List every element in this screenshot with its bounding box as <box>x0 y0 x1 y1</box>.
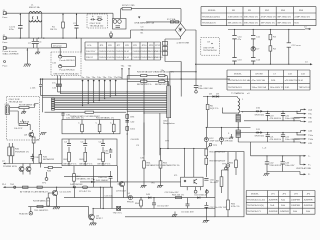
enclosure box control <box>215 152 244 217</box>
bus wires <box>41 92 167 113</box>
capacitor C36 <box>31 154 40 161</box>
wire drop x127 <box>127 81 128 123</box>
svg-text:C44 63V: C44 63V <box>131 139 140 141</box>
capacitor C11b <box>251 58 261 65</box>
wire primary tap <box>222 108 238 114</box>
wire ctl vertical <box>205 164 207 197</box>
choke L1 <box>29 5 42 39</box>
test point TP3 <box>222 164 227 170</box>
ground ctl <box>203 209 210 223</box>
svg-text:JUMPER: JUMPER <box>291 205 300 207</box>
capacitor C2 <box>73 13 79 38</box>
svg-text:N.A.: N.A. <box>281 198 286 201</box>
svg-text:JUMPER: JUMPER <box>304 205 313 207</box>
capacitor C34 + resistor R44 <box>98 139 111 166</box>
connector pin riser 1 <box>30 78 42 95</box>
resistor R7 <box>32 137 40 164</box>
svg-text:JP1 4k7 1%: JP1 4k7 1% <box>79 191 91 193</box>
resistor R48a <box>35 186 49 193</box>
transistor Q5 <box>89 208 104 223</box>
capacitor C1 X2 <box>9 13 23 38</box>
svg-text:Fase: Fase <box>3 17 9 19</box>
mosfet Q2 <box>26 164 31 175</box>
test point TP1 <box>42 172 48 185</box>
svg-text:al SETTORE: al SETTORE <box>177 43 190 45</box>
capacitor C19 <box>266 111 282 121</box>
terminal T10b <box>294 138 314 143</box>
terminal J2 neutral input <box>3 35 9 44</box>
svg-text:N.A.: N.A. <box>270 204 275 207</box>
capacitor C43 <box>281 155 295 171</box>
diode D42 <box>127 193 134 204</box>
svg-text:POWER MOS: POWER MOS <box>3 166 17 168</box>
resistor R52 <box>159 148 180 178</box>
fuse F1 <box>146 18 180 23</box>
svg-text:39P 2W20 1%: 39P 2W20 1% <box>261 23 275 25</box>
terminal T9b <box>294 117 313 122</box>
svg-text:R? BETA: R? BETA <box>20 120 29 123</box>
wire L2 bottom <box>7 37 131 39</box>
svg-text:N.M.: N.M. <box>125 57 130 59</box>
svg-text:N.M.: N.M. <box>285 87 290 89</box>
optocoupler IC1 <box>174 148 203 190</box>
wire bridge right to rail <box>186 30 196 71</box>
transformer T1 primary <box>237 97 244 115</box>
svg-text:CHIUSO: CHIUSO <box>154 51 163 53</box>
svg-text:F1 T10A: F1 T10A <box>167 18 176 21</box>
diode D9 <box>216 93 220 97</box>
resistor R3 <box>269 30 277 45</box>
capacitor C5 <box>59 55 76 62</box>
svg-text:a78 S/BCT84: a78 S/BCT84 <box>285 80 299 82</box>
wire bridge bottom <box>165 37 181 97</box>
svg-text:190-12: 190-12 <box>86 57 94 59</box>
wire gate low rail <box>64 177 112 182</box>
wire rows left join <box>126 76 128 82</box>
zener D7 <box>251 45 260 57</box>
node labels <box>134 17 154 35</box>
svg-text:TH2 70°C: TH2 70°C <box>113 213 123 215</box>
capacitor C12 <box>287 30 301 65</box>
svg-text:R31 BETA/MC 1%: R31 BETA/MC 1% <box>96 116 114 119</box>
svg-text:FR106: FR106 <box>127 202 134 204</box>
terminal socket lower <box>19 207 33 216</box>
svg-text:C5 10u 63V: C5 10u 63V <box>157 206 169 208</box>
varistor RV1 <box>97 16 103 20</box>
varistor bank RV3 <box>162 42 167 56</box>
svg-text:R26 BETA/10W 1%: R26 BETA/10W 1% <box>137 71 156 74</box>
svg-text:N.M.: N.M. <box>271 80 276 82</box>
thermostat TH2 <box>113 206 123 214</box>
junction dots snubber <box>195 29 289 65</box>
ground fan <box>264 172 270 176</box>
capacitor C22 <box>281 132 300 142</box>
svg-text:22MF 2W20 2%: 22MF 2W20 2% <box>294 16 310 18</box>
svg-text:JUMPER: JUMPER <box>304 199 313 201</box>
svg-text:D43 1N4148: D43 1N4148 <box>195 194 208 196</box>
terminal P minus <box>300 172 310 177</box>
wire DC rail top <box>203 96 237 98</box>
svg-text:BETA/MC2W 1%: BETA/MC2W 1% <box>147 164 164 167</box>
diode D41 <box>91 180 109 183</box>
wire bottom rail <box>125 216 215 218</box>
wire L2 to bridge left <box>131 30 176 38</box>
svg-text:N.A.: N.A. <box>293 210 298 213</box>
resistor R37 row2 <box>155 80 169 86</box>
svg-text:150m 250V 6A: 150m 250V 6A <box>252 86 267 89</box>
wire driver bottom rail <box>6 186 113 188</box>
svg-text:SF28 600: SF28 600 <box>255 136 265 138</box>
svg-text:100n: 100n <box>130 129 136 131</box>
wire tap risers <box>52 76 61 94</box>
svg-text:470k 1%: 470k 1% <box>231 206 240 208</box>
diode D43 <box>195 194 208 198</box>
wire long mid rail <box>41 78 231 80</box>
wire verticals x100 x103 <box>100 187 114 210</box>
terminal L2B <box>301 142 313 145</box>
svg-text:C12 ar-ar: C12 ar-ar <box>292 44 302 47</box>
svg-text:JUMPER: JUMPER <box>269 199 278 201</box>
terminal T6b <box>128 66 133 80</box>
connector pin riser 2 <box>42 78 43 112</box>
wire out B top <box>244 132 300 134</box>
capacitor C52 <box>204 202 227 209</box>
resistor R36 row1 <box>155 71 174 86</box>
terminal L2A <box>301 130 313 133</box>
svg-text:R2 NTC 2R5: R2 NTC 2R5 <box>122 5 135 7</box>
svg-text:N.M.: N.M. <box>125 51 130 53</box>
svg-text:TECNICA 100: TECNICA 100 <box>9 100 24 103</box>
wire HV feed <box>180 62 182 80</box>
diode D45 <box>146 194 151 199</box>
wire out B bottom <box>238 141 301 143</box>
svg-text:47m 100V 4A: 47m 100V 4A <box>252 79 266 82</box>
svg-text:470F 400: 470F 400 <box>210 141 220 143</box>
svg-text:JUMPER: JUMPER <box>291 199 300 201</box>
svg-text:Fase: Fase <box>3 42 9 44</box>
terminal arrow left <box>2 184 7 188</box>
capacitor C51b <box>181 198 194 214</box>
capacitor C5b <box>59 65 76 72</box>
terminal T10a <box>297 132 314 137</box>
box gate networks <box>62 139 117 166</box>
wire low rail 2 <box>28 207 90 217</box>
svg-text:ONLY FOR TECNICA 160: ONLY FOR TECNICA 160 <box>53 72 79 75</box>
wire riser TP <box>167 118 168 149</box>
mosfet Q1 <box>19 164 24 175</box>
terminal T6a <box>121 66 126 80</box>
table transformer right mid <box>227 70 311 90</box>
svg-text:JUMPER: JUMPER <box>269 211 278 213</box>
terminal arrow gate rail <box>2 161 5 165</box>
svg-text:PGS/R2W 1%: PGS/R2W 1% <box>15 152 29 154</box>
resistor R47b below <box>73 166 94 188</box>
svg-text:CHOKE: CHOKE <box>255 74 263 76</box>
svg-text:BETA/UF 1%: BETA/UF 1% <box>98 163 111 166</box>
wire filter link <box>60 38 81 66</box>
wire fb rail <box>96 181 181 183</box>
resistor R4 <box>269 45 277 64</box>
resistor R34 <box>110 120 115 134</box>
svg-text:D40 1N4148: D40 1N4148 <box>70 184 83 186</box>
svg-text:P-: P- <box>308 174 310 176</box>
resistor R57 <box>34 206 49 213</box>
wire top rail ctl <box>161 148 207 150</box>
ground R51 <box>141 182 147 188</box>
transistor Q4 <box>50 187 72 207</box>
svg-text:Fase: Fase <box>3 66 9 68</box>
svg-text:R4 BETA/MC 1%: R4 BETA/MC 1% <box>33 200 50 203</box>
terminal L1B <box>301 121 313 124</box>
svg-text:MODEL: MODEL <box>234 74 243 76</box>
connector CN3 <box>5 104 10 114</box>
svg-text:39P 2W20 2%: 39P 2W20 2% <box>277 16 291 18</box>
svg-text:JUMPER: JUMPER <box>280 211 289 213</box>
resistor R40 <box>8 143 20 164</box>
wire verticals x112 x117 <box>111 166 117 209</box>
dashed option box filters <box>51 52 81 76</box>
svg-text:T10a: T10a <box>308 135 314 137</box>
svg-text:100n 630 400V: 100n 630 400V <box>285 139 300 141</box>
svg-text:BETA/R2W: BETA/R2W <box>43 158 55 161</box>
svg-text:470n: 470n <box>9 29 15 31</box>
svg-text:100n 630 400V: 100n 630 400V <box>285 118 300 120</box>
test point TH1 <box>10 184 16 188</box>
svg-text:N.A.: N.A. <box>281 204 286 207</box>
capacitor C32 + resistor R42 <box>64 139 77 166</box>
capacitor C11 <box>251 30 261 46</box>
wire out A bottom <box>244 120 301 122</box>
dashed option box 2 <box>201 38 220 56</box>
svg-text:4MLG7 6A: 4MLG7 6A <box>29 6 40 9</box>
svg-text:MODEL: MODEL <box>251 193 260 195</box>
svg-text:470 400V H: 470 400V H <box>270 139 282 141</box>
svg-text:JP12: JP12 <box>155 45 161 47</box>
capacitor C4 Y <box>35 38 42 48</box>
ground Q5 <box>89 223 96 225</box>
diode D12 bulk <box>204 127 219 149</box>
resistor R33 <box>96 120 101 134</box>
transformer T1 secondary <box>228 130 244 142</box>
resistor R45 <box>39 150 55 168</box>
svg-text:Posab RF2/B-D: Posab RF2/B-D <box>59 60 75 62</box>
terminal J1 line input <box>3 10 9 19</box>
svg-text:BETA/UF 1%: BETA/UF 1% <box>80 163 93 166</box>
svg-text:JP11: JP11 <box>149 45 155 47</box>
test point TP2 <box>208 143 218 148</box>
svg-text:TMC04 D-B: TMC04 D-B <box>299 87 311 89</box>
ground Q4 <box>53 207 60 209</box>
svg-text:CN3: CN3 <box>5 104 10 106</box>
svg-text:SQF 1%: SQF 1% <box>210 108 218 110</box>
wire low rail ctl <box>93 208 215 210</box>
svg-text:TECNICA 161(S): TECNICA 161(S) <box>247 204 264 207</box>
capacitor C3 Y <box>28 38 35 48</box>
svg-text:1M 2%: 1M 2% <box>50 29 57 31</box>
capacitor C33 + resistor R43 <box>80 139 93 166</box>
svg-text:L2A: L2A <box>308 130 312 133</box>
svg-text:BETA/UF 1%: BETA/UF 1% <box>64 163 77 166</box>
svg-text:TECNICA 144/161: TECNICA 144/161 <box>202 15 221 18</box>
capacitor C6 <box>91 16 96 21</box>
capacitor C10 <box>232 30 242 58</box>
resistor R59 <box>205 156 226 165</box>
svg-text:100n 63V: 100n 63V <box>285 165 295 167</box>
ground R52 <box>157 178 163 188</box>
wire connector feed <box>161 70 197 86</box>
wire low rail <box>64 197 131 199</box>
dashed option box ONLY FOR TECNICA <box>87 14 108 28</box>
svg-text:N.M.: N.M. <box>299 80 304 82</box>
resistor R47a <box>20 186 34 193</box>
svg-text:VENTILATORE: VENTILATORE <box>296 167 312 170</box>
svg-text:100n 630V 400: 100n 630V 400 <box>198 88 214 90</box>
svg-text:AT7 BETA 1%: AT7 BETA 1% <box>20 190 34 193</box>
svg-text:TECNICA 171: TECNICA 171 <box>247 210 262 213</box>
table jumpers bottom right <box>246 191 315 215</box>
svg-text:CHIUSO: CHIUSO <box>116 57 125 59</box>
svg-text:N.M.: N.M. <box>294 23 299 25</box>
svg-text:SF28 600: SF28 600 <box>255 114 265 116</box>
box drivers <box>62 116 120 134</box>
wire drop x159 <box>159 113 161 155</box>
terminal P plus <box>300 155 312 166</box>
ground chassis 2 <box>35 48 40 54</box>
junction dots bus <box>82 91 145 106</box>
ground transformer <box>229 134 233 139</box>
diode D13 bulk <box>219 127 233 145</box>
junction dots AC <box>20 14 77 51</box>
wire gate rail <box>5 163 62 165</box>
svg-text:R5 BETA/RW 1%: R5 BETA/RW 1% <box>19 103 36 106</box>
ground R5 <box>21 109 26 114</box>
resistor R27 row2 <box>127 80 158 86</box>
pin labels aux <box>236 93 250 95</box>
svg-text:AT8 BETA 1%: AT8 BETA 1% <box>35 190 49 193</box>
svg-text:100-115V: 100-115V <box>86 51 96 53</box>
wire fan rail <box>251 142 302 156</box>
capacitor C51 <box>152 197 169 209</box>
svg-text:Q7 BC817: Q7 BC817 <box>116 191 127 193</box>
junction node <box>93 166 94 188</box>
svg-text:BETA/10W 1%: BETA/10W 1% <box>155 83 169 86</box>
terminal T9a <box>297 111 313 116</box>
svg-text:39K 2W20 1%: 39K 2W20 1% <box>244 23 258 25</box>
svg-text:C4 10u 63V: C4 10u 63V <box>60 192 72 194</box>
bridge rectifier D6 <box>175 22 186 37</box>
terminal J3 earth <box>3 47 20 56</box>
test point TP5 <box>194 190 197 193</box>
terminal L1A <box>301 108 313 111</box>
resistor R41 <box>11 143 29 164</box>
svg-text:R59 BETA/R2W: R59 BETA/R2W <box>210 160 227 163</box>
wire earth <box>7 48 60 64</box>
wire mid rail ctl <box>131 197 215 199</box>
resistor R55 in box <box>227 167 240 217</box>
resistor R51 <box>140 123 163 182</box>
capacitor C10b <box>232 58 242 65</box>
capacitor C37 <box>98 171 113 187</box>
resistor R56b in box <box>216 170 229 194</box>
resistor R56 <box>229 152 237 175</box>
svg-text:L1B: L1B <box>308 121 312 123</box>
terminal L+ <box>301 155 311 158</box>
svg-text:39K 2W20 1%: 39K 2W20 1% <box>228 23 242 25</box>
svg-text:TR1 GRUPPO: TR1 GRUPPO <box>34 210 49 212</box>
wire L1 top <box>7 12 113 14</box>
snubber rail top <box>228 29 305 31</box>
capacitor C42 <box>265 155 282 171</box>
wire to bridge top <box>131 9 181 22</box>
resistor R32 <box>78 120 83 134</box>
terminal J4 <box>3 61 9 68</box>
test point TP7 in box <box>226 152 229 168</box>
svg-text:470 400V H: 470 400V H <box>270 118 282 120</box>
svg-text:T10b: T10b <box>308 139 314 141</box>
diode D40 <box>70 184 83 198</box>
ground mid <box>172 212 177 217</box>
resistor R47c <box>33 193 50 207</box>
svg-text:T7a/T8a: T7a/T8a <box>114 77 123 79</box>
table connections mid <box>85 42 163 60</box>
resistor R58 <box>205 149 226 156</box>
svg-text:TECNICA 150: TECNICA 150 <box>203 49 218 52</box>
thermostat wire <box>45 111 127 118</box>
earth ground circle <box>110 31 113 37</box>
relay RL1 <box>113 13 127 29</box>
svg-text:L2B: L2B <box>308 143 312 145</box>
ground chassis <box>24 64 31 67</box>
capacitor C20 <box>281 111 300 121</box>
resistor R1 <box>50 13 64 38</box>
capacitor C35 <box>104 148 112 158</box>
svg-text:N.A.: N.A. <box>306 210 311 213</box>
resistor R54 <box>135 197 142 209</box>
svg-text:39K 2W20 1%: 39K 2W20 1% <box>244 16 258 18</box>
svg-text:TECNICA 141-151: TECNICA 141-151 <box>247 198 266 201</box>
resistor R6 <box>206 96 218 128</box>
svg-text:Neopalatine: Neopalatine <box>163 122 175 125</box>
svg-text:BETA/MC 2W 1%: BETA/MC 2W 1% <box>77 177 94 180</box>
diode D8 <box>209 93 215 97</box>
resistor R53 <box>172 194 184 198</box>
ground sym mid <box>40 133 46 135</box>
svg-text:Posab RF2/B-D: Posab RF2/B-D <box>59 70 75 72</box>
svg-text:2200 63V H: 2200 63V H <box>270 165 282 167</box>
svg-text:BETA/MC2W 1%: BETA/MC2W 1% <box>163 164 180 167</box>
dashed option box remote <box>7 96 40 140</box>
svg-text:Drivanan: Drivanan <box>53 45 63 48</box>
svg-text:MODEL: MODEL <box>208 10 217 12</box>
wire fan bottom <box>267 171 300 173</box>
resistor R26 row1 <box>127 71 158 77</box>
diode D10 <box>255 108 265 117</box>
svg-text:CHIUSO: CHIUSO <box>107 51 116 53</box>
svg-text:100n 63V: 100n 63V <box>98 177 108 179</box>
svg-text:L1A: L1A <box>308 108 312 111</box>
svg-text:C31 100n 63V 1%: C31 100n 63V 1% <box>66 117 84 119</box>
capacitor C30 <box>61 112 70 119</box>
svg-text:D-B: D-B <box>288 74 292 76</box>
label box tap <box>52 44 67 48</box>
terminals T1a-T8a row <box>81 77 123 106</box>
table model options top right <box>201 7 316 26</box>
resistor R2 inrush <box>121 5 136 19</box>
svg-text:TECNICA 150: TECNICA 150 <box>90 24 105 27</box>
svg-text:BC817: BC817 <box>96 218 103 220</box>
jumper JP1 <box>79 186 91 193</box>
capacitor C50 <box>204 179 218 185</box>
